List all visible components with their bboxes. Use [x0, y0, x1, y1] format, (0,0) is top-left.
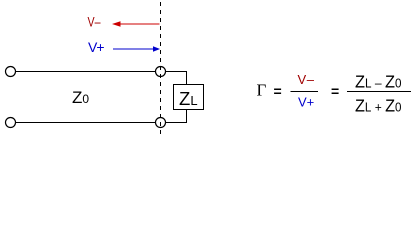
- arrow V+ (incident wave, rightward): [113, 48, 153, 50]
- node circle bottom-right: [156, 118, 166, 128]
- svg-text:=: =: [274, 83, 282, 99]
- svg-text:V–: V–: [298, 72, 315, 87]
- dashed reference-plane line: [160, 2, 162, 134]
- svg-text:V+: V+: [88, 39, 105, 55]
- wire top node to load: [166, 72, 187, 85]
- svg-text:ZL – Z0: ZL – Z0: [355, 72, 402, 92]
- terminal circle bottom-left: [6, 118, 16, 128]
- svg-text:Z0: Z0: [72, 88, 89, 107]
- node circle top-right: [156, 67, 166, 77]
- arrow V- (reflected wave, leftward): [120, 23, 160, 25]
- fraction bar ZL-Z0/ZL+Z0: [347, 91, 411, 93]
- wire (bottom conductor): [16, 122, 156, 124]
- wire bottom node to load: [166, 110, 187, 123]
- svg-text:ZL + Z0: ZL + Z0: [355, 96, 402, 116]
- terminal circle top-left: [6, 67, 16, 77]
- wire (top conductor): [16, 71, 156, 73]
- fraction bar V-/V+: [291, 91, 319, 93]
- load box ZL: [174, 85, 204, 110]
- svg-text:=: =: [331, 83, 339, 99]
- svg-text:V+: V+: [298, 95, 314, 110]
- svg-text:Γ: Γ: [257, 81, 267, 100]
- svg-text:V–: V–: [88, 14, 101, 30]
